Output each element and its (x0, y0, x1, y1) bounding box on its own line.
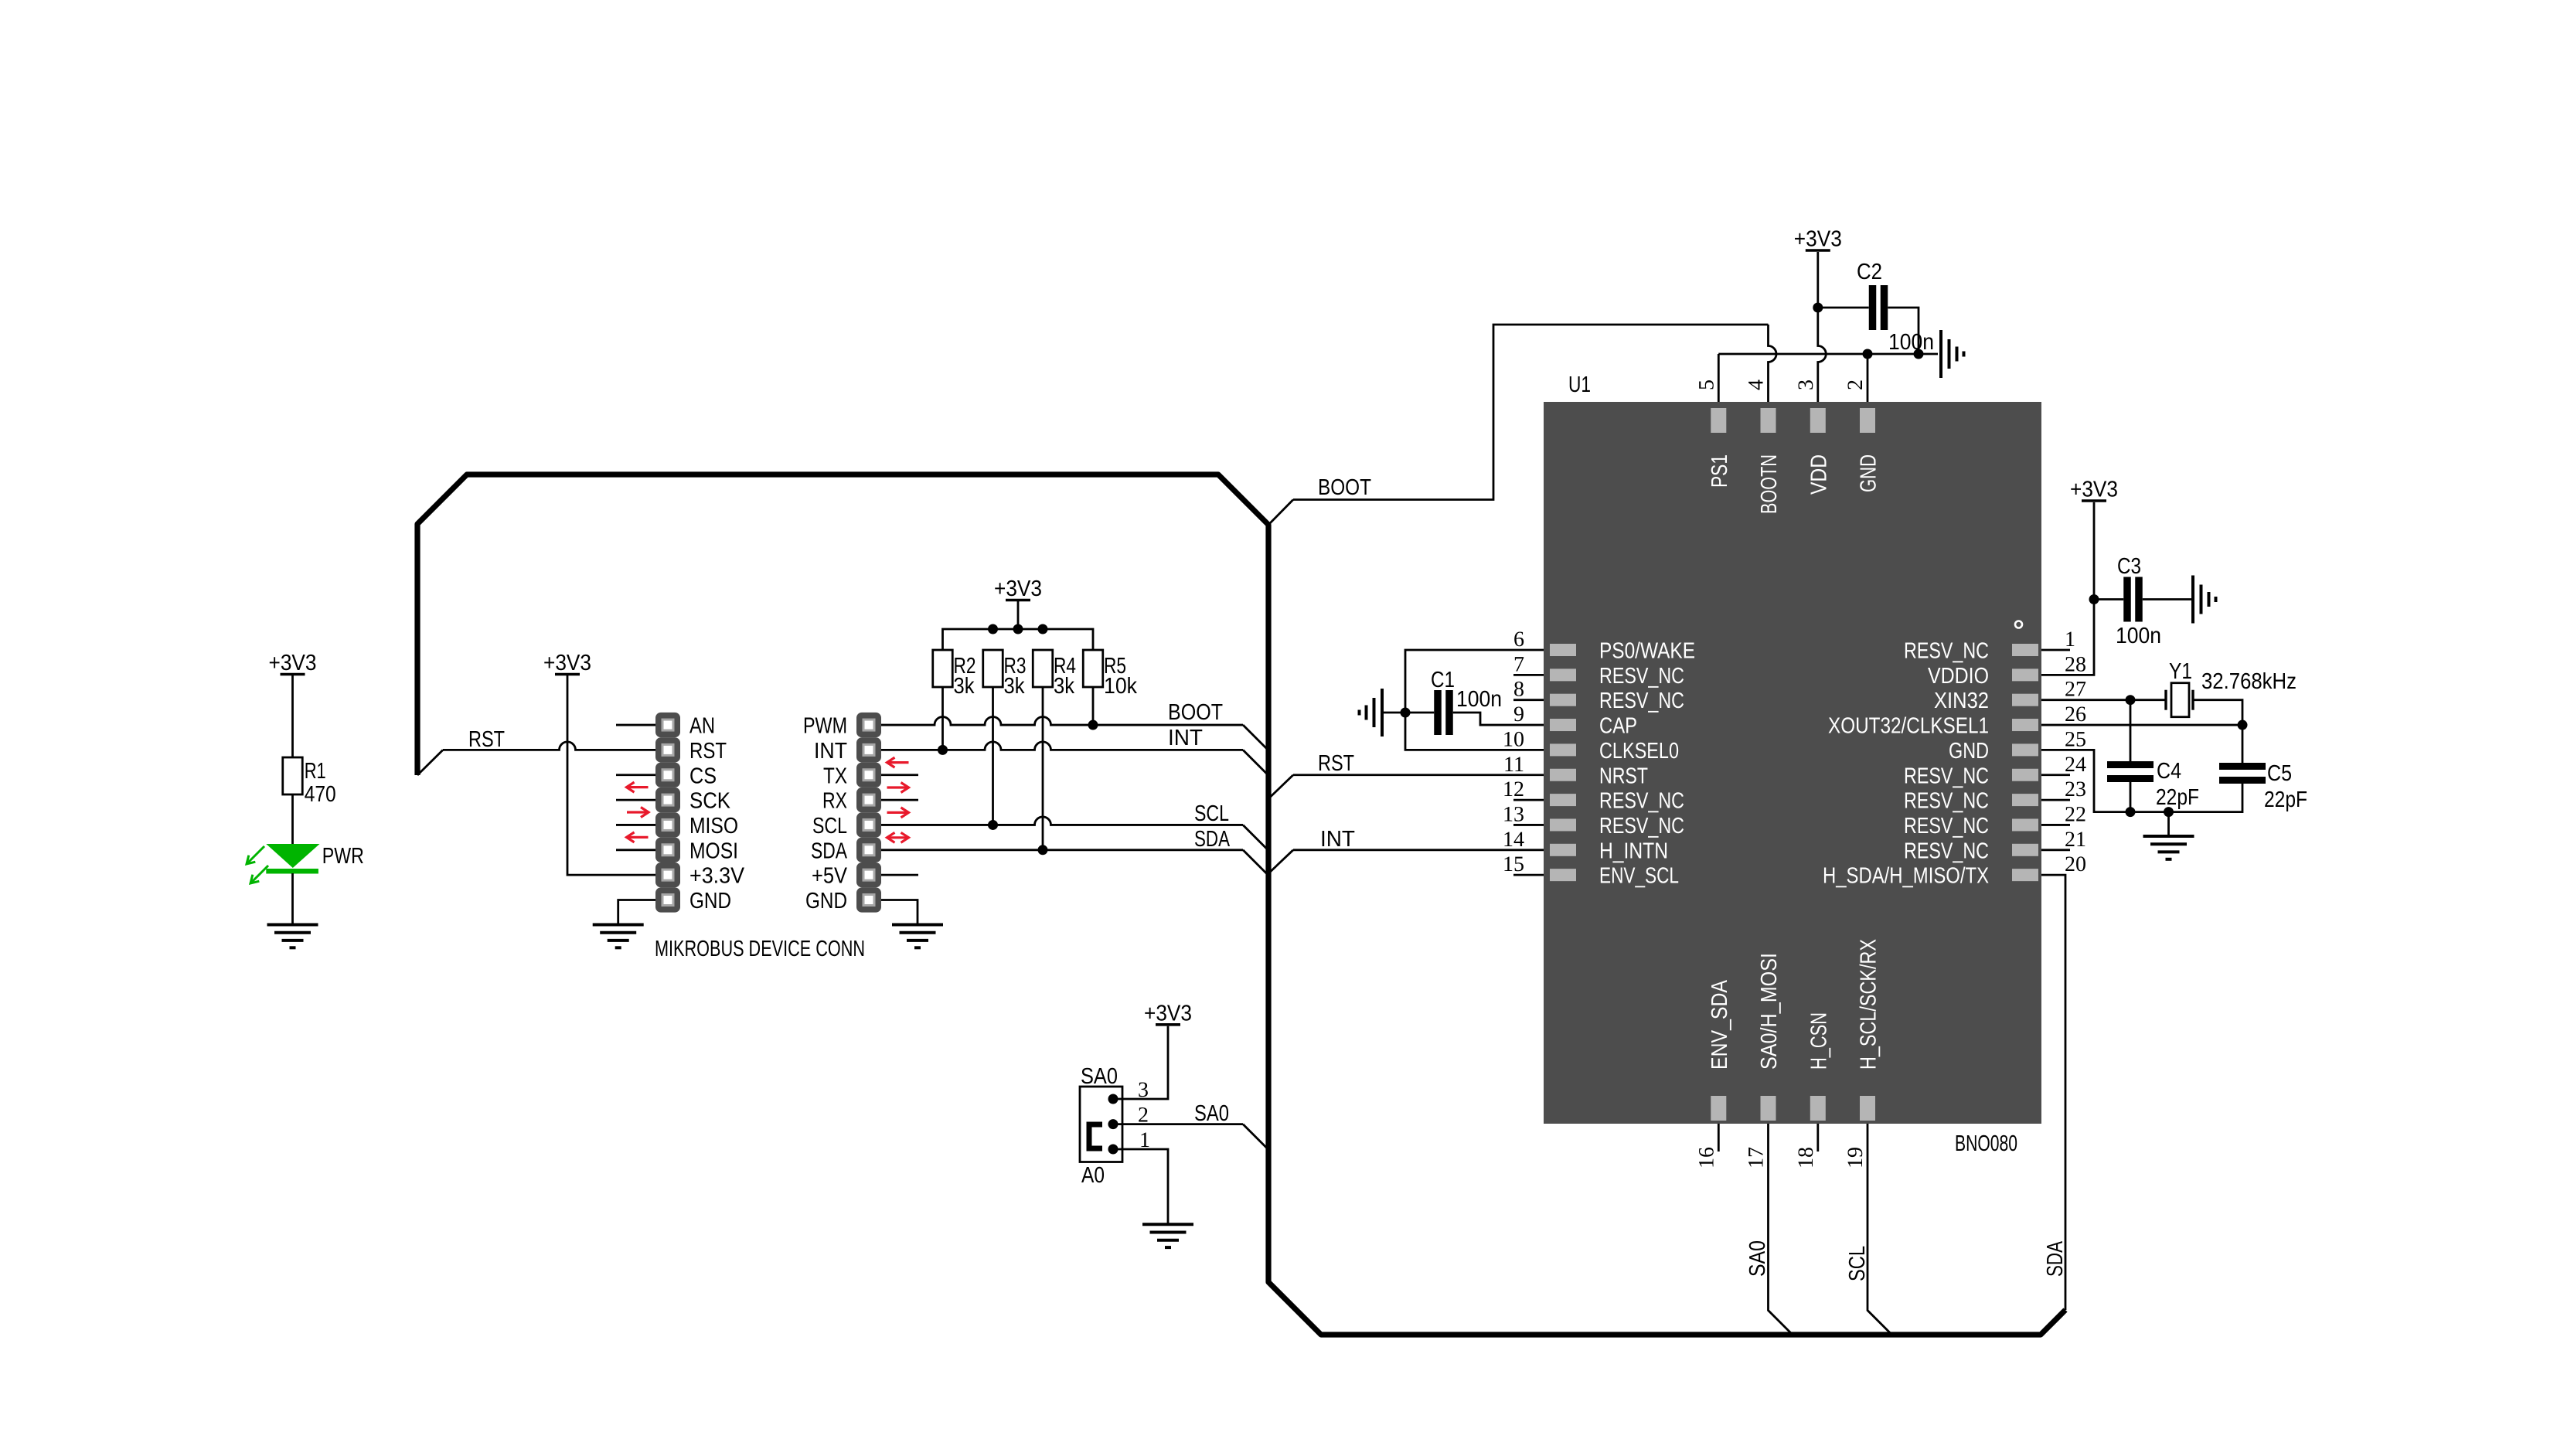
svg-text:R1: R1 (305, 759, 326, 784)
svg-text:3: 3 (1794, 379, 1818, 390)
label SA0 (bottom, rotated) (1745, 1240, 1770, 1277)
wire INT (bus to H_INTN) (1268, 850, 1544, 873)
ground (mikrobus left) (593, 925, 644, 948)
label jumper pin numbers (1138, 1078, 1150, 1152)
svg-text:22pF: 22pF (2264, 788, 2307, 812)
wire C3 left (2094, 598, 2123, 600)
wire PS1 up (1718, 354, 1720, 406)
label C3 100n (2116, 554, 2161, 648)
IC left pins (pads, names, numbers) (1503, 628, 1695, 889)
svg-text:H_SDA/H_MISO/TX: H_SDA/H_MISO/TX (1823, 864, 1989, 889)
wire CLKSEL0 pin 10 (1405, 713, 1544, 750)
label R2 3k (954, 654, 976, 699)
resistor R3 (983, 650, 1003, 687)
wire Y1 left down to C4 (2130, 700, 2132, 761)
svg-text:RESV_NC: RESV_NC (1904, 839, 1989, 863)
svg-text:3k: 3k (1054, 674, 1074, 699)
wire RST (bus to NRST) (1268, 775, 1544, 799)
svg-text:11: 11 (1503, 753, 1524, 777)
LED PWR (green) (247, 794, 320, 925)
svg-text:C2: C2 (1857, 260, 1882, 284)
svg-text:AN: AN (689, 714, 715, 739)
svg-text:21: 21 (2065, 828, 2086, 852)
svg-text:+3.3V: +3.3V (689, 864, 745, 889)
IC bottom pins (pads, names, numbers) (1694, 939, 1881, 1169)
svg-text:ENV_SDA: ENV_SDA (1708, 979, 1732, 1070)
svg-text:INT: INT (814, 739, 847, 764)
svg-text:SCL: SCL (1194, 801, 1229, 826)
svg-text:9: 9 (1513, 702, 1524, 726)
svg-text:BNO080: BNO080 (1955, 1131, 2017, 1156)
svg-text:GND: GND (689, 889, 731, 913)
wire Y1 right to XOUT32 (2193, 700, 2248, 730)
svg-text:Y1: Y1 (2169, 659, 2192, 684)
svg-text:7: 7 (1513, 652, 1524, 676)
svg-text:PWR: PWR (322, 844, 364, 869)
svg-text:H_CSN: H_CSN (1806, 1012, 1831, 1070)
wire stub SCK (616, 799, 655, 801)
resistor R2 (933, 650, 953, 687)
label U1 (1568, 373, 1591, 397)
label 32.768kHz (2201, 669, 2297, 694)
svg-text:100n: 100n (1888, 330, 1934, 355)
svg-text:3k: 3k (1004, 674, 1025, 699)
wire RST (bus to header) (417, 742, 655, 775)
wire C2 left (1818, 307, 1869, 309)
svg-text:100n: 100n (1456, 687, 1502, 712)
capacitor C3 (2123, 577, 2143, 622)
labels mikrobus right pins (803, 714, 848, 913)
svg-text:5: 5 (1694, 379, 1718, 390)
wire R5 bottom (1092, 687, 1095, 725)
ground (LED) (267, 925, 318, 948)
ground (SA0) (1142, 1224, 1193, 1247)
svg-text:12: 12 (1503, 777, 1524, 801)
wire R4 bottom (1042, 687, 1044, 850)
wire stub pin 18 (1816, 1124, 1819, 1152)
label RST (left) (468, 727, 505, 752)
svg-text:8: 8 (1513, 678, 1524, 702)
arrow out (RX/SCL) (887, 808, 909, 818)
label R5 10k (1104, 654, 1137, 699)
wire GND pin 25 rail (2041, 750, 2242, 836)
wire R2 bottom (941, 687, 944, 750)
svg-text:26: 26 (2065, 702, 2086, 726)
labels mikrobus left pins (689, 714, 745, 913)
svg-text:XIN32: XIN32 (1934, 689, 1989, 713)
svg-text:C4: C4 (2157, 759, 2181, 784)
wire XIN32 pin 27 (2041, 695, 2166, 705)
wire C1 node (1382, 708, 1434, 718)
svg-text:C3: C3 (2117, 554, 2141, 579)
wire SCL pin 19 to bus (1868, 1124, 1892, 1335)
crystal Y1 32.768kHz (2166, 683, 2193, 717)
wire stub AN (616, 724, 655, 726)
svg-text:+3V3: +3V3 (2070, 478, 2118, 502)
svg-text:RESV_NC: RESV_NC (1599, 664, 1684, 689)
arrow out (TX/RX) (887, 783, 909, 793)
ground (mikrobus right) (892, 925, 943, 948)
ground (C3) (2193, 576, 2216, 624)
svg-text:RESV_NC: RESV_NC (1599, 789, 1684, 814)
svg-text:BOOT: BOOT (1318, 475, 1371, 500)
label SDA (left) (1194, 827, 1230, 852)
wire SDA row (881, 845, 1268, 875)
svg-text:100n: 100n (2116, 624, 2161, 648)
svg-text:20: 20 (2065, 852, 2086, 876)
ground (C2) (1941, 330, 1964, 378)
wire XOUT32 pin 26 (2041, 724, 2242, 726)
svg-text:SA0: SA0 (1081, 1064, 1118, 1089)
svg-text:U1: U1 (1568, 373, 1591, 397)
svg-text:CS: CS (689, 764, 717, 788)
svg-text:SA0: SA0 (1745, 1240, 1770, 1277)
IC top pins (pads, names, numbers) (1694, 379, 1881, 514)
wire stub +5V (881, 874, 918, 876)
svg-text:RESV_NC: RESV_NC (1904, 764, 1989, 788)
wire VDDIO pin 28 (2041, 502, 2099, 675)
ground (C1) (1360, 689, 1383, 737)
svg-text:16: 16 (1694, 1147, 1718, 1169)
svg-text:A0: A0 (1081, 1163, 1105, 1188)
wire stub MOSI (616, 849, 655, 851)
label BOOT (left) (1168, 700, 1223, 725)
svg-text:25: 25 (2065, 727, 2086, 751)
svg-text:22pF: 22pF (2156, 785, 2199, 810)
svg-text:27: 27 (2065, 678, 2086, 702)
label INT (right) (1320, 827, 1355, 852)
svg-text:+3V3: +3V3 (543, 651, 591, 675)
wire H_SDA pin 20 to bus (2041, 875, 2065, 1310)
svg-text:SA0: SA0 (1194, 1101, 1229, 1126)
IC right pins (pads, names, numbers) (1823, 628, 2086, 889)
arrow bidir (SCL/SDA) (887, 832, 909, 842)
jumper pins and shunt bracket (1089, 1094, 1118, 1155)
svg-text:24: 24 (2065, 753, 2086, 777)
label R4 3k (1054, 654, 1076, 699)
label SDA (bottom, rotated) (2043, 1241, 2068, 1277)
label C5 22pF (2264, 761, 2307, 812)
resistor R1 (283, 757, 303, 794)
svg-text:+5V: +5V (812, 864, 848, 889)
wire PS0/WAKE pin 6 (1405, 650, 1544, 713)
svg-text:RESV_NC: RESV_NC (1904, 814, 1989, 839)
label BOOT (right) (1318, 475, 1371, 500)
svg-text:15: 15 (1503, 852, 1524, 876)
wire BOOT (PWM row) (881, 717, 1268, 750)
capacitor C1 (1434, 690, 1453, 735)
wire SA0 pin2 to bus (1113, 1124, 1268, 1149)
label BNO080 (1955, 1131, 2017, 1156)
label Y1 (2169, 659, 2192, 684)
label RST (right) (1318, 751, 1354, 776)
svg-text:SCK: SCK (689, 789, 731, 814)
svg-text:SCL: SCL (1845, 1246, 1870, 1281)
capacitor C5 (2219, 763, 2266, 784)
label C4 22pF (2156, 759, 2199, 810)
svg-text:14: 14 (1503, 828, 1524, 852)
power +3V3 (LED branch) (269, 651, 317, 757)
svg-text:17: 17 (1745, 1147, 1769, 1169)
svg-text:H_INTN: H_INTN (1599, 839, 1668, 863)
wire SA0 pin3 to +3V3 (1113, 1026, 1168, 1099)
wire BOOT (bus to BOOTN) (1268, 325, 1776, 525)
wire GND left header to ground (618, 900, 655, 925)
svg-text:H_SCL/SCK/RX: H_SCL/SCK/RX (1857, 939, 1881, 1070)
power +3V3 (mikrobus) (543, 651, 591, 675)
IC U1 BNO080 body (1544, 402, 2041, 1124)
svg-text:MOSI: MOSI (689, 839, 738, 863)
svg-text:INT: INT (1320, 827, 1355, 852)
svg-text:SCL: SCL (812, 814, 847, 839)
svg-text:GND: GND (805, 889, 847, 913)
svg-text:PWM: PWM (803, 714, 847, 739)
svg-text:1: 1 (2065, 628, 2075, 651)
capacitor C2 (1869, 285, 1888, 330)
wire GND right header to ground (881, 900, 918, 925)
wire stub RX (881, 799, 918, 801)
svg-text:VDDIO: VDDIO (1928, 664, 1989, 689)
wire stub pin 16 (1718, 1124, 1720, 1152)
svg-text:PS0/WAKE: PS0/WAKE (1599, 639, 1695, 664)
svg-text:XOUT32/CLKSEL1: XOUT32/CLKSEL1 (1828, 714, 1989, 739)
label C1 100n (1431, 668, 1502, 712)
svg-text:3k: 3k (954, 674, 975, 699)
wire SA0 pin 17 to bus (1769, 1124, 1793, 1335)
label C2 100n (1857, 260, 1934, 355)
power +3V3 (VDD) (1794, 227, 1842, 252)
label A0 (1081, 1163, 1105, 1188)
svg-text:22: 22 (2065, 802, 2086, 826)
arrow in (MISO/MOSI) (627, 832, 649, 842)
label SA0 (jumper) (1081, 1064, 1118, 1089)
label SA0 (net) (1194, 1101, 1229, 1126)
svg-text:18: 18 (1794, 1147, 1818, 1169)
connector SA0 jumper box (1080, 1087, 1122, 1162)
arrow out (SCK/MISO) (627, 808, 649, 818)
label SCL (left) (1194, 801, 1229, 826)
power +3V3 (VDDIO) (2070, 478, 2118, 502)
svg-text:2: 2 (1844, 379, 1868, 390)
svg-text:19: 19 (1844, 1147, 1868, 1169)
svg-text:RX: RX (822, 789, 847, 814)
svg-text:C1: C1 (1431, 668, 1455, 692)
connector CN1 mikrobus left column (655, 713, 680, 913)
svg-text:13: 13 (1503, 802, 1524, 826)
wire XOUT32 down to C5 (2242, 725, 2244, 763)
svg-text:+3V3: +3V3 (269, 651, 317, 675)
svg-text:RESV_NC: RESV_NC (1904, 789, 1989, 814)
connector CN2 mikrobus right column (856, 713, 881, 913)
svg-text:SDA: SDA (2043, 1241, 2068, 1277)
svg-text:MIKROBUS DEVICE CONN: MIKROBUS DEVICE CONN (655, 937, 865, 961)
svg-text:CAP: CAP (1599, 714, 1637, 739)
svg-text:SDA: SDA (1194, 827, 1230, 852)
resistor R5 (1083, 650, 1103, 687)
wire R3 bottom (992, 687, 994, 825)
wire GND pin up (1867, 354, 1869, 406)
svg-text:RESV_NC: RESV_NC (1904, 639, 1989, 664)
label PWR (322, 844, 364, 869)
svg-text:SA0/H_MOSI: SA0/H_MOSI (1757, 953, 1782, 1070)
svg-text:+3V3: +3V3 (1794, 227, 1842, 252)
svg-text:32.768kHz: 32.768kHz (2201, 669, 2297, 694)
svg-text:+3V3: +3V3 (1144, 1001, 1192, 1026)
power +3V3 (SA0) (1144, 1001, 1192, 1026)
label INT (left) (1168, 726, 1203, 750)
wire INT row (881, 742, 1268, 775)
svg-text:+3V3: +3V3 (994, 577, 1042, 601)
wire SA0 pin1 to ground (1113, 1149, 1168, 1224)
arrow in (INT/TX) (887, 757, 909, 767)
wire CAP pin 9 (1453, 713, 1544, 725)
svg-text:RST: RST (1318, 751, 1354, 776)
svg-text:BOOT: BOOT (1168, 700, 1223, 725)
wire stub TX (881, 774, 918, 776)
svg-text:C5: C5 (2267, 761, 2292, 786)
svg-text:GND: GND (1949, 739, 1989, 764)
svg-text:10k: 10k (1104, 674, 1137, 699)
svg-text:SDA: SDA (811, 839, 848, 863)
wire pullup rail (943, 629, 1094, 650)
svg-text:MISO: MISO (689, 814, 738, 839)
label R1 470 (305, 759, 336, 807)
svg-text:470: 470 (305, 782, 336, 807)
label SCL (bottom, rotated) (1845, 1246, 1870, 1281)
svg-text:BOOTN: BOOTN (1757, 454, 1782, 514)
wire stub CS (616, 774, 655, 776)
svg-text:RESV_NC: RESV_NC (1599, 814, 1684, 839)
svg-text:PS1: PS1 (1708, 454, 1732, 488)
wire stub MISO (616, 824, 655, 826)
svg-text:28: 28 (2065, 652, 2086, 676)
capacitor C4 (2107, 761, 2154, 782)
wire SCL row (881, 817, 1268, 850)
svg-text:VDD: VDD (1806, 454, 1831, 495)
svg-text:6: 6 (1513, 628, 1524, 651)
wire C2 right to gnd rail (1888, 308, 1919, 354)
svg-text:ENV_SCL: ENV_SCL (1599, 864, 1679, 889)
svg-text:GND: GND (1857, 454, 1881, 492)
svg-text:RST: RST (468, 727, 505, 752)
node rail junctions (988, 624, 1048, 634)
bus (thick board outline) (417, 475, 2065, 1335)
arrow in (CS/SCK) (627, 782, 649, 792)
svg-text:23: 23 (2065, 777, 2086, 801)
svg-text:RESV_NC: RESV_NC (1599, 689, 1684, 713)
svg-text:INT: INT (1168, 726, 1203, 750)
wire PS1/GND rail (1718, 349, 1938, 359)
power +3V3 (pullups) (994, 577, 1042, 629)
svg-text:CLKSEL0: CLKSEL0 (1599, 739, 1679, 764)
svg-text:NRST: NRST (1599, 764, 1648, 788)
wire +3V3 to VDD pin (1813, 252, 1826, 406)
wire C3 right (2143, 598, 2191, 600)
svg-text:RST: RST (689, 739, 727, 764)
svg-text:4: 4 (1745, 379, 1769, 390)
ground (crystal caps) (2143, 836, 2194, 859)
label MIKROBUS DEVICE CONN (655, 937, 865, 961)
wire +3V3 to +3.3V pin (567, 675, 655, 875)
svg-text:TX: TX (823, 764, 847, 788)
svg-text:10: 10 (1503, 727, 1524, 751)
label R3 3k (1004, 654, 1027, 699)
resistor R4 (1033, 650, 1053, 687)
